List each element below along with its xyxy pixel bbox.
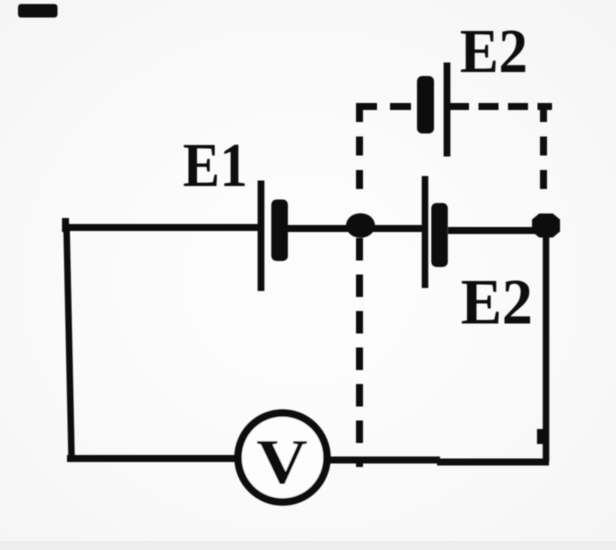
svg-text:E2: E2 <box>461 266 533 338</box>
battery E2 top thick plate <box>417 76 434 134</box>
wire dashed horizontal top left part <box>356 103 413 110</box>
wire dashed vertical right branch <box>540 103 547 196</box>
ui artifact bar top-left <box>18 4 58 18</box>
wire right vertical <box>543 230 550 462</box>
bottom margin band <box>0 541 616 550</box>
node junction dot left <box>346 213 375 238</box>
wire left vertical <box>67 225 72 456</box>
node junction dot right (octagon) <box>532 214 560 238</box>
wire from node to battery E2 <box>370 225 424 232</box>
battery E2 top thin plate <box>444 63 451 157</box>
wire dashed horizontal top right part <box>449 103 552 110</box>
wire stub top-left corner <box>62 218 69 232</box>
battery E1 thick plate <box>271 200 288 262</box>
wire nub on right vertical <box>537 429 543 444</box>
wire bottom right horizontal <box>330 457 441 464</box>
battery E2 main thick plate <box>431 203 448 267</box>
battery E2 main thin plate <box>422 176 429 288</box>
svg-text:E1: E1 <box>183 130 248 200</box>
wire main horizontal left segment <box>62 224 258 231</box>
wire main horizontal right segment <box>448 227 536 234</box>
wire dashed vertical left branch lower part <box>356 238 363 467</box>
voltmeter V circle <box>238 413 327 502</box>
wire bottom left horizontal <box>67 455 237 462</box>
wire bottom right horizontal step <box>437 459 549 466</box>
battery E1 thin plate <box>258 181 265 292</box>
svg-text:E2: E2 <box>460 17 528 86</box>
wire main horizontal middle segment <box>287 225 354 232</box>
wire dashed vertical left branch upper part <box>356 103 363 196</box>
svg-text:V: V <box>256 426 308 497</box>
